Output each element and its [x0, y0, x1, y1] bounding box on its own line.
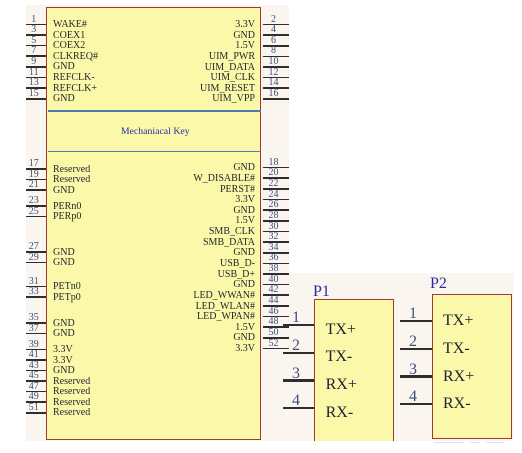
pin 30 (SMB_CLK)	[0, 0, 522, 1]
pin 4 (GND)	[0, 0, 522, 1]
pin 50 (GND)	[0, 0, 522, 1]
connector P2 body	[432, 294, 512, 439]
pin 31 (PETn0)	[0, 0, 522, 1]
P2 pin 4 (RX-)	[0, 0, 522, 1]
P2 pin 3 (RX+)	[0, 0, 522, 1]
pin 42 (LED_WWAN#)	[0, 0, 522, 1]
P1 pin 4 (RX-)	[0, 0, 522, 1]
pin 22 (PERST#)	[0, 0, 522, 1]
pin 44 (LED_WLAN#)	[0, 0, 522, 1]
pin 25 (PERp0)	[0, 0, 522, 1]
pin 12 (UIM_CLK)	[0, 0, 522, 1]
pin 5 (COEX2)	[0, 0, 522, 1]
pin 7 (CLKREQ#)	[0, 0, 522, 1]
P1 pin 3 (RX+)	[0, 0, 522, 1]
connector P1 body	[314, 299, 394, 441]
pin 14 (UIM_RESET)	[0, 0, 522, 1]
pin 16 (UIM_VPP)	[0, 0, 522, 1]
pin 10 (UIM_DATA)	[0, 0, 522, 1]
pin 49 (Reserved)	[0, 0, 522, 1]
pin 48 (1.5V)	[0, 0, 522, 1]
P2 pin 2 (TX-)	[0, 0, 522, 1]
pin 11 (REFCLK-)	[0, 0, 522, 1]
label P1 designator	[313, 284, 330, 299]
pin 1 (WAKE#)	[0, 0, 522, 1]
pin 43 (GND)	[0, 0, 522, 1]
pin 35 (GND)	[0, 0, 522, 1]
pin 37 (GND)	[0, 0, 522, 1]
wire faint scan artifact below P2	[434, 442, 464, 443]
P1 pin 2 (TX-)	[0, 0, 522, 1]
pin 13 (REFCLK+)	[0, 0, 522, 1]
label P2 designator	[430, 276, 447, 291]
pin 23 (PERn0)	[0, 0, 522, 1]
pin 40 (GND)	[0, 0, 522, 1]
mechanical key upper separator line	[48, 110, 261, 112]
pin 18 (GND)	[0, 0, 522, 1]
pin 46 (LED_WPAN#)	[0, 0, 522, 1]
pin 45 (Reserved)	[0, 0, 522, 1]
pin 33 (PETp0)	[0, 0, 522, 1]
pin 32 (SMB_DATA)	[0, 0, 522, 1]
pin 9 (GND)	[0, 0, 522, 1]
label Mechaniacal Key	[47, 126, 264, 137]
pin 38 (USB_D+)	[0, 0, 522, 1]
pin 17 (Reserved)	[0, 0, 522, 1]
pin 27 (GND)	[0, 0, 522, 1]
pin 52 (3.3V)	[0, 0, 522, 1]
pin 2 (3.3V)	[0, 0, 522, 1]
node page-background-upper	[26, 5, 289, 441]
pin 51 (Reserved)	[0, 0, 522, 1]
pin 21 (GND)	[0, 0, 522, 1]
pin 39 (3.3V)	[0, 0, 522, 1]
node page-background-lower	[289, 273, 514, 441]
pin 26 (GND)	[0, 0, 522, 1]
pin 28 (1.5V)	[0, 0, 522, 1]
pin 8 (UIM_PWR)	[0, 0, 522, 1]
pin 20 (W_DISABLE#)	[0, 0, 522, 1]
pin 34 (GND)	[0, 0, 522, 1]
P1 pin 1 (TX+)	[0, 0, 522, 1]
mechanical key lower separator line	[48, 151, 261, 153]
pin 15 (GND)	[0, 0, 522, 1]
pin 6 (1.5V)	[0, 0, 522, 1]
connector CN1 mini-PCIe body	[46, 7, 261, 440]
pin 24 (3.3V)	[0, 0, 522, 1]
P2 pin 1 (TX+)	[0, 0, 522, 1]
pin 41 (3.3V)	[0, 0, 522, 1]
pin 29 (GND)	[0, 0, 522, 1]
pin 3 (COEX1)	[0, 0, 522, 1]
pin 36 (USB_D-)	[0, 0, 522, 1]
pin 47 (Reserved)	[0, 0, 522, 1]
pin 19 (Reserved)	[0, 0, 522, 1]
